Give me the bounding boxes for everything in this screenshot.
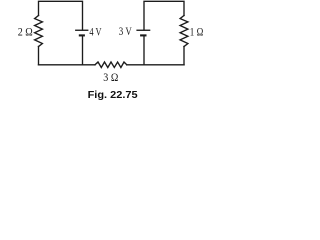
- battery B1 4V long plate: [75, 29, 88, 31]
- svg-text:2 Ω: 2 Ω: [18, 27, 33, 39]
- resistor R1 2ohm: [35, 16, 43, 47]
- battery B2 3V long plate: [136, 29, 150, 31]
- svg-text:1 Ω: 1 Ω: [190, 26, 204, 38]
- svg-text:3 V: 3 V: [119, 26, 133, 38]
- svg-text:Fig. 22.75: Fig. 22.75: [88, 90, 138, 101]
- wire battery B2 bottom: [143, 37, 145, 65]
- wire bottom left: [39, 64, 96, 66]
- wire top right loop: [144, 1, 184, 30]
- wire battery B1 bottom: [82, 37, 84, 65]
- wire right bottom stub: [183, 47, 185, 65]
- svg-text:3 Ω: 3 Ω: [103, 72, 118, 84]
- wire bottom right: [127, 64, 184, 66]
- svg-text:4 V: 4 V: [89, 26, 102, 38]
- resistor R2 1ohm: [180, 16, 188, 47]
- resistor R3 3ohm: [95, 62, 127, 68]
- battery B1 4V short plate: [79, 34, 85, 36]
- wire top left loop: [39, 1, 83, 30]
- wire left bottom stub: [38, 47, 40, 65]
- battery B2 3V short plate: [140, 34, 146, 36]
